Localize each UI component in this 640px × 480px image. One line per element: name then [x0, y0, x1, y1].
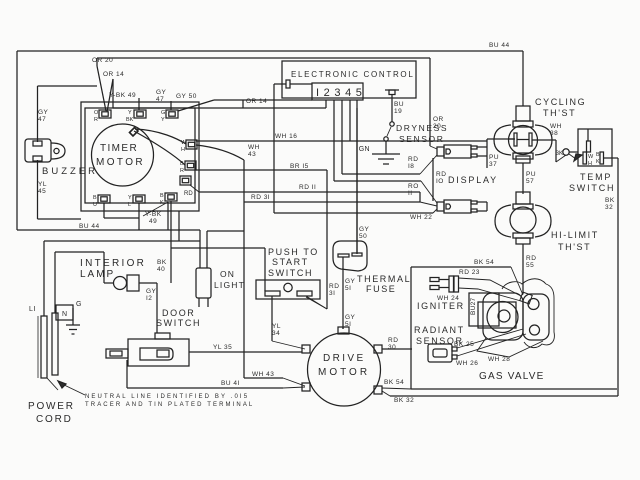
svg-text:LI: LI [29, 306, 36, 313]
svg-text:WH 43: WH 43 [252, 371, 274, 378]
svg-text:RO: RO [408, 183, 419, 190]
svg-text:Y: Y [161, 117, 165, 123]
svg-text:OR 20: OR 20 [92, 57, 113, 64]
svg-text:30: 30 [388, 344, 396, 351]
svg-text:DRIVE: DRIVE [323, 353, 366, 364]
svg-text:BU 4I: BU 4I [221, 380, 240, 387]
svg-text:BK 54: BK 54 [384, 379, 404, 386]
svg-text:34: 34 [272, 330, 280, 337]
svg-text:BK 32: BK 32 [394, 397, 414, 404]
svg-text:GY: GY [146, 288, 157, 295]
svg-text:49: 49 [149, 218, 157, 225]
svg-text:YL 35: YL 35 [213, 344, 232, 351]
svg-text:RD: RD [526, 255, 536, 262]
svg-text:BK: BK [157, 259, 167, 266]
svg-text:SWITCH: SWITCH [569, 183, 615, 193]
svg-text:B: B [596, 152, 600, 158]
svg-text:TH'ST: TH'ST [543, 108, 576, 118]
svg-text:TEMP: TEMP [580, 172, 612, 182]
svg-text:OR 14: OR 14 [246, 98, 267, 105]
svg-text:3I: 3I [329, 290, 335, 297]
svg-text:ON: ON [220, 269, 235, 279]
svg-text:DISPLAY: DISPLAY [448, 175, 498, 185]
svg-text:45: 45 [38, 188, 46, 195]
svg-text:B: B [93, 195, 97, 201]
svg-text:GY: GY [345, 314, 356, 321]
svg-text:SWITCH: SWITCH [156, 318, 201, 328]
svg-text:GY: GY [156, 89, 167, 96]
svg-text:BK 25: BK 25 [454, 341, 474, 348]
svg-text:GY: GY [38, 109, 49, 116]
svg-text:RD: RD [388, 337, 398, 344]
svg-text:Y: Y [128, 195, 132, 201]
svg-text:POWER: POWER [28, 401, 75, 412]
svg-text:3K: 3K [556, 151, 563, 157]
svg-text:U: U [93, 202, 97, 208]
svg-text:GY 50: GY 50 [176, 93, 197, 100]
svg-text:37: 37 [489, 161, 497, 168]
svg-text:DRYNESS: DRYNESS [396, 123, 448, 133]
svg-text:H: H [181, 147, 185, 153]
svg-text:THERMAL: THERMAL [357, 274, 411, 284]
svg-text:IGNITER: IGNITER [417, 301, 465, 311]
svg-text:RADIANT: RADIANT [414, 325, 465, 335]
svg-text:CYCLING: CYCLING [535, 97, 586, 107]
svg-text:50: 50 [359, 233, 367, 240]
svg-text:BU: BU [394, 101, 404, 108]
svg-text:BK: BK [126, 117, 134, 123]
svg-text:K: K [596, 159, 600, 165]
svg-text:N: N [62, 311, 68, 318]
svg-text:BU 44: BU 44 [489, 42, 510, 49]
svg-text:Y: Y [128, 110, 132, 116]
svg-text:WH: WH [550, 123, 562, 130]
svg-text:ELECTRONIC CONTROL: ELECTRONIC CONTROL [291, 70, 415, 79]
svg-text:BU 44: BU 44 [79, 223, 100, 230]
svg-text:W: W [588, 154, 594, 160]
svg-text:INTERIOR: INTERIOR [80, 258, 146, 269]
svg-text:WH 26: WH 26 [456, 360, 478, 367]
svg-text:TH'ST: TH'ST [558, 242, 591, 252]
svg-text:WH: WH [248, 144, 260, 151]
svg-text:BR I5: BR I5 [290, 163, 309, 170]
svg-text:MOTOR: MOTOR [318, 367, 370, 378]
svg-text:RD 3I: RD 3I [251, 194, 270, 201]
svg-text:RD: RD [408, 156, 418, 163]
svg-text:RD: RD [436, 171, 446, 178]
svg-text:OR 14: OR 14 [103, 71, 124, 78]
svg-text:OR: OR [433, 116, 444, 123]
svg-text:19: 19 [394, 108, 402, 115]
svg-text:SWITCH: SWITCH [268, 268, 313, 278]
svg-text:FUSE: FUSE [366, 284, 396, 294]
svg-text:R: R [180, 168, 184, 174]
svg-text:43: 43 [248, 151, 256, 158]
svg-text:H: H [588, 161, 592, 167]
svg-text:47: 47 [38, 116, 46, 123]
svg-text:BK 54: BK 54 [474, 259, 494, 266]
svg-text:57: 57 [526, 178, 534, 185]
svg-text:PU: PU [489, 154, 499, 161]
svg-text:HI-LIMIT: HI-LIMIT [551, 230, 599, 240]
svg-text:G: G [161, 110, 165, 116]
svg-text:START: START [272, 257, 309, 267]
svg-text:BK: BK [605, 197, 615, 204]
svg-text:DOOR: DOOR [162, 308, 195, 318]
svg-text:MOTOR: MOTOR [96, 157, 145, 168]
svg-text:RD II: RD II [299, 184, 316, 191]
svg-text:LAMP: LAMP [80, 269, 115, 280]
svg-text:B: B [160, 193, 164, 199]
svg-text:RD 23: RD 23 [459, 269, 480, 276]
svg-text:BUZZER: BUZZER [42, 166, 98, 177]
svg-text:G: G [76, 301, 82, 308]
svg-text:SENSOR: SENSOR [399, 134, 445, 144]
svg-text:55: 55 [526, 262, 534, 269]
svg-text:38: 38 [550, 130, 558, 137]
svg-text:II: II [408, 190, 413, 197]
svg-text:I2: I2 [146, 295, 152, 302]
svg-text:Y-BK 49: Y-BK 49 [109, 92, 136, 99]
svg-text:TRACER AND TIN PLATED TERMINAL: TRACER AND TIN PLATED TERMINAL [85, 402, 254, 408]
svg-text:GY: GY [345, 278, 356, 285]
svg-text:RD: RD [184, 191, 193, 197]
svg-text:47: 47 [156, 96, 164, 103]
svg-text:Y-BK: Y-BK [145, 211, 162, 218]
svg-text:32: 32 [605, 204, 613, 211]
svg-text:I8: I8 [408, 163, 414, 170]
svg-text:O: O [94, 110, 99, 116]
svg-text:GY: GY [359, 226, 370, 233]
svg-text:PU: PU [526, 171, 536, 178]
svg-text:WH 22: WH 22 [410, 214, 432, 221]
svg-text:RD: RD [329, 283, 339, 290]
svg-text:R: R [94, 117, 98, 123]
svg-text:5I: 5I [345, 285, 351, 292]
svg-text:BU27: BU27 [470, 297, 477, 315]
svg-text:L: L [128, 202, 131, 208]
svg-text:40: 40 [157, 266, 165, 273]
svg-text:WH 16: WH 16 [275, 133, 297, 140]
svg-text:GAS VALVE: GAS VALVE [479, 371, 544, 382]
svg-text:NEUTRAL LINE IDENTIFIED BY .0I: NEUTRAL LINE IDENTIFIED BY .0I5 [85, 394, 249, 400]
svg-text:TIMER: TIMER [100, 143, 138, 154]
svg-text:YL: YL [38, 181, 47, 188]
svg-text:GN: GN [359, 146, 370, 153]
svg-text:CORD: CORD [36, 414, 73, 425]
svg-text:PUSH TO: PUSH TO [268, 247, 319, 257]
svg-text:LIGHT: LIGHT [214, 280, 245, 290]
svg-text:YL: YL [272, 323, 281, 330]
svg-text:I2345: I2345 [316, 87, 367, 99]
svg-text:IO: IO [436, 178, 444, 185]
